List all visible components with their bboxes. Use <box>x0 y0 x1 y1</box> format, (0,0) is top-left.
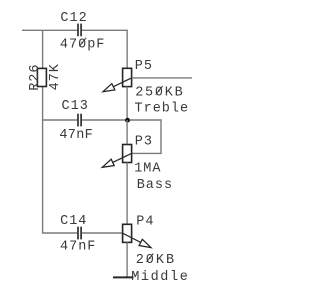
wire: P4 pin3 down to ground <box>126 242 128 277</box>
svg-text:C14: C14 <box>60 214 87 229</box>
svg-text:P3: P3 <box>135 135 153 150</box>
capacitor C12 <box>78 24 81 37</box>
arrowhead P5 <box>103 84 115 92</box>
svg-text:Bass: Bass <box>137 178 173 193</box>
potentiometer P3 wiper arrow <box>113 153 132 162</box>
svg-text:20KB: 20KB <box>136 253 176 268</box>
wire: C12 right plate to corner and down to P5 pin 1 <box>82 30 127 68</box>
capacitor C13 <box>78 114 81 127</box>
wire: P5 wiper line to right edge <box>132 77 192 79</box>
junction node <box>125 118 130 123</box>
wire: left rail top (net to R26) <box>42 30 44 68</box>
resistor R26 <box>37 68 46 86</box>
svg-text:250KB: 250KB <box>135 86 184 101</box>
arrowhead P3 <box>102 159 114 167</box>
wire: left rail R26 bottom to C14 corner <box>43 87 78 234</box>
svg-text:R26: R26 <box>28 63 43 90</box>
svg-text:C13: C13 <box>62 99 89 114</box>
svg-text:Treble: Treble <box>135 101 190 116</box>
ground <box>113 276 134 278</box>
wire: P3 pin3 down to P4 pin1 <box>126 163 128 225</box>
capacitor C14 <box>78 227 81 240</box>
wire: C14 right plate to P4 wiper <box>82 232 123 234</box>
svg-text:1MA: 1MA <box>134 162 161 177</box>
potentiometer P5 wiper arrow <box>113 78 131 87</box>
arrowhead P4 <box>139 239 151 247</box>
slash of zero in 250KB <box>156 86 163 95</box>
svg-text:47nF: 47nF <box>59 128 93 143</box>
svg-text:C12: C12 <box>60 11 87 26</box>
slash of zero in 470pF <box>79 38 86 47</box>
potentiometer P5 box <box>123 68 132 86</box>
wire: C13 net from rail to right <box>43 119 78 121</box>
wire: P5 pin3 down to junction <box>126 87 128 120</box>
svg-text:P5: P5 <box>135 59 153 74</box>
wire: junction down to P3 pin1 <box>126 120 128 145</box>
svg-text:47nF: 47nF <box>60 240 96 255</box>
slash of zero in 20KB <box>146 254 153 263</box>
potentiometer P4 wiper arrow (mirrored) <box>123 233 141 242</box>
wire: top net left segment to C12 <box>22 29 77 31</box>
svg-text:470pF: 470pF <box>60 37 106 52</box>
svg-text:Middle: Middle <box>131 270 189 285</box>
svg-text:P4: P4 <box>136 215 154 230</box>
svg-text:47K: 47K <box>48 63 63 90</box>
potentiometer P4 box <box>123 224 132 242</box>
wire: C13 right plate to corner x161 and down to P3 wiper <box>82 120 161 153</box>
potentiometer P3 box <box>123 145 132 163</box>
